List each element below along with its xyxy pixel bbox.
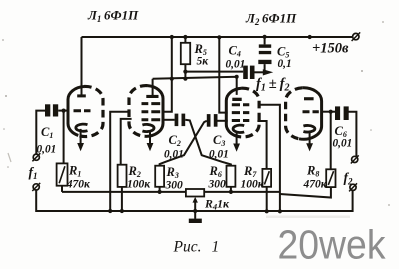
wire: R4 wiper to ground — [194, 202, 196, 219]
resistor R6 300 — [227, 166, 236, 187]
potentiometer R4 1k — [186, 189, 204, 197]
tube V2a pentode envelope — [226, 88, 241, 136]
svg-text:100к: 100к — [241, 179, 265, 191]
wire: V1b plate lead — [152, 79, 154, 95]
node bus-V1b grid — [108, 209, 112, 213]
wire: screen grid of V1b up to rail — [163, 37, 172, 112]
capacitor C3 0,01 — [207, 114, 218, 127]
wire: V1b cathode lead — [149, 130, 151, 144]
wire: R3 cross-couple to C3 — [160, 121, 207, 166]
resistor R2 100k leads — [121, 187, 123, 211]
node grid V2b / R8 — [329, 110, 333, 114]
cathode V2a — [233, 125, 244, 132]
svg-text:C4: C4 — [229, 44, 241, 59]
node rail-screen V1b — [170, 35, 174, 39]
wire: C2 cross-couple to R6 — [185, 120, 231, 166]
cathode V1a — [76, 124, 88, 131]
svg-text:Рис.: Рис. — [173, 239, 202, 256]
wire: output line to C4 — [185, 71, 243, 73]
grid 3 V1b — [142, 118, 161, 121]
wire: V2b grid to C6 — [322, 111, 336, 113]
wire: V2a cathode lead — [236, 133, 238, 144]
svg-text:0,01: 0,01 — [226, 59, 246, 71]
resistor R8 470k leads — [280, 187, 331, 198]
resistor R5 leads — [184, 37, 186, 79]
wire: V1b to C2 — [163, 119, 175, 121]
capacitor C4 0,01 — [243, 66, 254, 79]
svg-text:300: 300 — [165, 180, 184, 192]
capacitor C2 0,01 — [175, 114, 186, 127]
node rail-V2 plate — [308, 35, 312, 39]
wire: C1 to V1a grid — [58, 110, 68, 112]
svg-text:0,1: 0,1 — [278, 58, 292, 70]
resistor R3 300 — [155, 166, 164, 187]
svg-text:R2: R2 — [128, 164, 141, 179]
node cathode bus R3 — [158, 190, 162, 194]
grid V1a — [74, 109, 91, 112]
node R5-anode line — [183, 77, 187, 81]
svg-text:f1 ± f2: f1 ± f2 — [256, 76, 289, 94]
resistor R6 300 leads — [230, 187, 232, 192]
wire: V1a cathode lead — [80, 129, 82, 144]
wire: output arrow f1+-f2 — [255, 71, 264, 73]
cathode V2b — [303, 125, 314, 132]
resistor R8 470k — [326, 169, 335, 187]
wire: R8 top lead — [330, 112, 332, 170]
svg-text:Л2 6Ф1П: Л2 6Ф1П — [245, 10, 297, 27]
node cathode bus R6 — [229, 190, 233, 194]
wire: V1b g3 stub to R2 — [121, 119, 132, 165]
resistor R1 470k — [57, 163, 68, 185]
resistor R2 100k — [118, 165, 127, 187]
svg-text:0,01: 0,01 — [37, 143, 57, 155]
terminal f1 top — [33, 154, 39, 160]
scan smudge bottom left — [8, 153, 11, 162]
node rail-C5 — [263, 35, 267, 39]
terminal f2 top — [352, 156, 358, 162]
svg-text:20wek: 20wek — [278, 222, 386, 268]
resistor R7 100k — [262, 169, 271, 187]
svg-text:+150в: +150в — [312, 41, 349, 57]
grid 1 V1b — [142, 102, 161, 105]
svg-text:R8: R8 — [306, 164, 319, 179]
tube V1a triode envelope — [68, 87, 84, 136]
capacitor C1 0,01 — [45, 104, 58, 116]
node bus-V2a grid — [278, 209, 282, 213]
node bus-R7 — [265, 209, 269, 213]
svg-text:R41к: R41к — [204, 197, 230, 212]
node grid V1a / R1 — [62, 109, 66, 113]
svg-text:f1: f1 — [29, 165, 38, 182]
wire: C3 to V2a — [218, 120, 228, 122]
svg-text:100к: 100к — [127, 179, 151, 191]
node rail-screen V2a — [217, 35, 221, 39]
wire: V1b grid2 to bus — [110, 112, 129, 211]
svg-text:R1: R1 — [68, 164, 81, 179]
capacitor C6 0,01 — [335, 106, 349, 120]
cathode V1b — [142, 124, 154, 131]
svg-text:0,01: 0,01 — [333, 138, 353, 150]
wire: R1 top lead — [63, 111, 65, 164]
resistor R3 300 leads — [159, 187, 161, 192]
node bus-R4 wiper — [193, 209, 197, 213]
grid 1 V2a — [232, 103, 250, 106]
terminal f1 bottom — [33, 184, 39, 190]
cathode bus — [62, 191, 280, 193]
resistor R1 470k leads — [61, 186, 63, 192]
svg-text:300: 300 — [208, 179, 227, 191]
tube V1b pentode envelope — [129, 86, 148, 137]
resistor R7 100k leads — [266, 187, 268, 211]
svg-text:R7: R7 — [243, 164, 257, 179]
wire: tube V1 plate lead to rail — [81, 37, 83, 95]
wire: C6 to f2 top — [348, 112, 356, 157]
wire: f1 top to C1 — [36, 111, 45, 155]
grid 3 V2a — [232, 119, 250, 122]
tube V2b triode envelope — [286, 88, 303, 139]
svg-text:1: 1 — [212, 239, 220, 256]
ground — [189, 219, 202, 223]
svg-text:f2: f2 — [344, 170, 354, 187]
svg-text:470к: 470к — [66, 179, 91, 191]
wire: +150V top rail — [82, 36, 353, 38]
wire: V2a stub to R7 — [257, 121, 266, 169]
node R5-output line — [183, 70, 187, 74]
resistor R5 5k — [181, 43, 190, 64]
svg-text:0,01: 0,01 — [209, 149, 229, 161]
node screen/anode line crossing — [170, 77, 174, 81]
node anode line / V2a plate — [235, 75, 239, 79]
svg-text:R3: R3 — [166, 165, 179, 180]
wire: screen grid of V2a up to rail — [219, 37, 227, 112]
grid 2 V2a — [232, 111, 250, 114]
svg-text:C2: C2 — [169, 133, 181, 148]
capacitor C5 0,1 — [264, 37, 266, 44]
anode V1a — [77, 94, 86, 97]
grid 2 V1b — [142, 110, 161, 113]
wire: V2b cathode lead — [309, 132, 311, 144]
anode V2b — [304, 97, 314, 100]
svg-text:C3: C3 — [213, 133, 225, 148]
svg-text:470к: 470к — [303, 179, 328, 191]
anode V1b — [146, 95, 158, 98]
wire: V2a grid to bus — [258, 105, 280, 211]
node rail-R5 — [183, 35, 187, 39]
terminal +150V — [353, 33, 359, 39]
terminal f2 bottom — [350, 184, 356, 190]
svg-text:5к: 5к — [197, 55, 210, 67]
anode V2a — [232, 98, 241, 101]
svg-text:Л1 6Ф1П: Л1 6Ф1П — [87, 8, 139, 25]
node bus-R2 — [120, 209, 124, 213]
wire: anode line V1b plate to V2a plate — [153, 77, 237, 95]
grid V2b — [303, 110, 319, 113]
wire: f1 bottom to ground bus — [36, 190, 352, 211]
svg-text:C1: C1 — [41, 125, 53, 140]
svg-text:R6: R6 — [209, 164, 222, 179]
